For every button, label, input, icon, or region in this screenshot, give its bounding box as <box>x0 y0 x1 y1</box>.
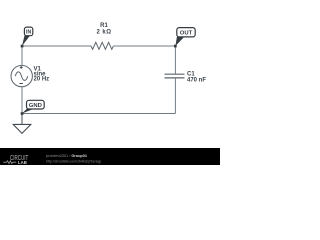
svg-text:R1: R1 <box>100 23 108 29</box>
CircuitLab logo wire glyph and LAB <box>3 160 27 165</box>
svg-text:470 nF: 470 nF <box>187 77 206 83</box>
svg-text:IN: IN <box>26 29 31 35</box>
svg-text:GND: GND <box>29 103 42 109</box>
flag IN <box>22 27 33 46</box>
voltage source V1 labels <box>34 66 50 82</box>
voltage source V1 <box>11 65 32 86</box>
capacitor C1 labels <box>187 72 206 84</box>
svg-text:LAB: LAB <box>18 160 27 165</box>
svg-text:20 Hz: 20 Hz <box>34 77 50 83</box>
wire right vertical lower (C1 bottom plate to bottom rail) <box>174 78 176 114</box>
svg-text:http://circuitlab.com/c64b3q72: http://circuitlab.com/c64b3q72ersqp <box>46 159 101 163</box>
wire top-right (R1 to OUT node) <box>113 45 175 47</box>
ground symbol <box>13 114 31 134</box>
svg-text:OUT: OUT <box>180 31 193 37</box>
wire right vertical upper (OUT node to C1 top plate) <box>174 46 176 74</box>
wire bottom rail <box>22 113 175 115</box>
node OUT junction dot <box>174 45 177 48</box>
wire left vertical upper (IN node to V1 top) <box>21 46 23 66</box>
capacitor C1 <box>165 74 185 78</box>
flag GND <box>22 100 44 113</box>
flag OUT <box>175 28 195 46</box>
wire left vertical lower (V1 bottom to GND node) <box>21 87 23 114</box>
node IN junction dot <box>21 45 24 48</box>
node GND junction dot <box>21 112 24 115</box>
resistor R1 <box>91 42 113 49</box>
svg-text:2 kΩ: 2 kΩ <box>97 30 112 36</box>
watermark bar <box>0 148 220 165</box>
resistor R1 labels <box>97 23 112 36</box>
wire top-left (IN node to R1 left lead) <box>22 45 91 47</box>
svg-text:problem2001 / Group01: problem2001 / Group01 <box>46 154 87 158</box>
